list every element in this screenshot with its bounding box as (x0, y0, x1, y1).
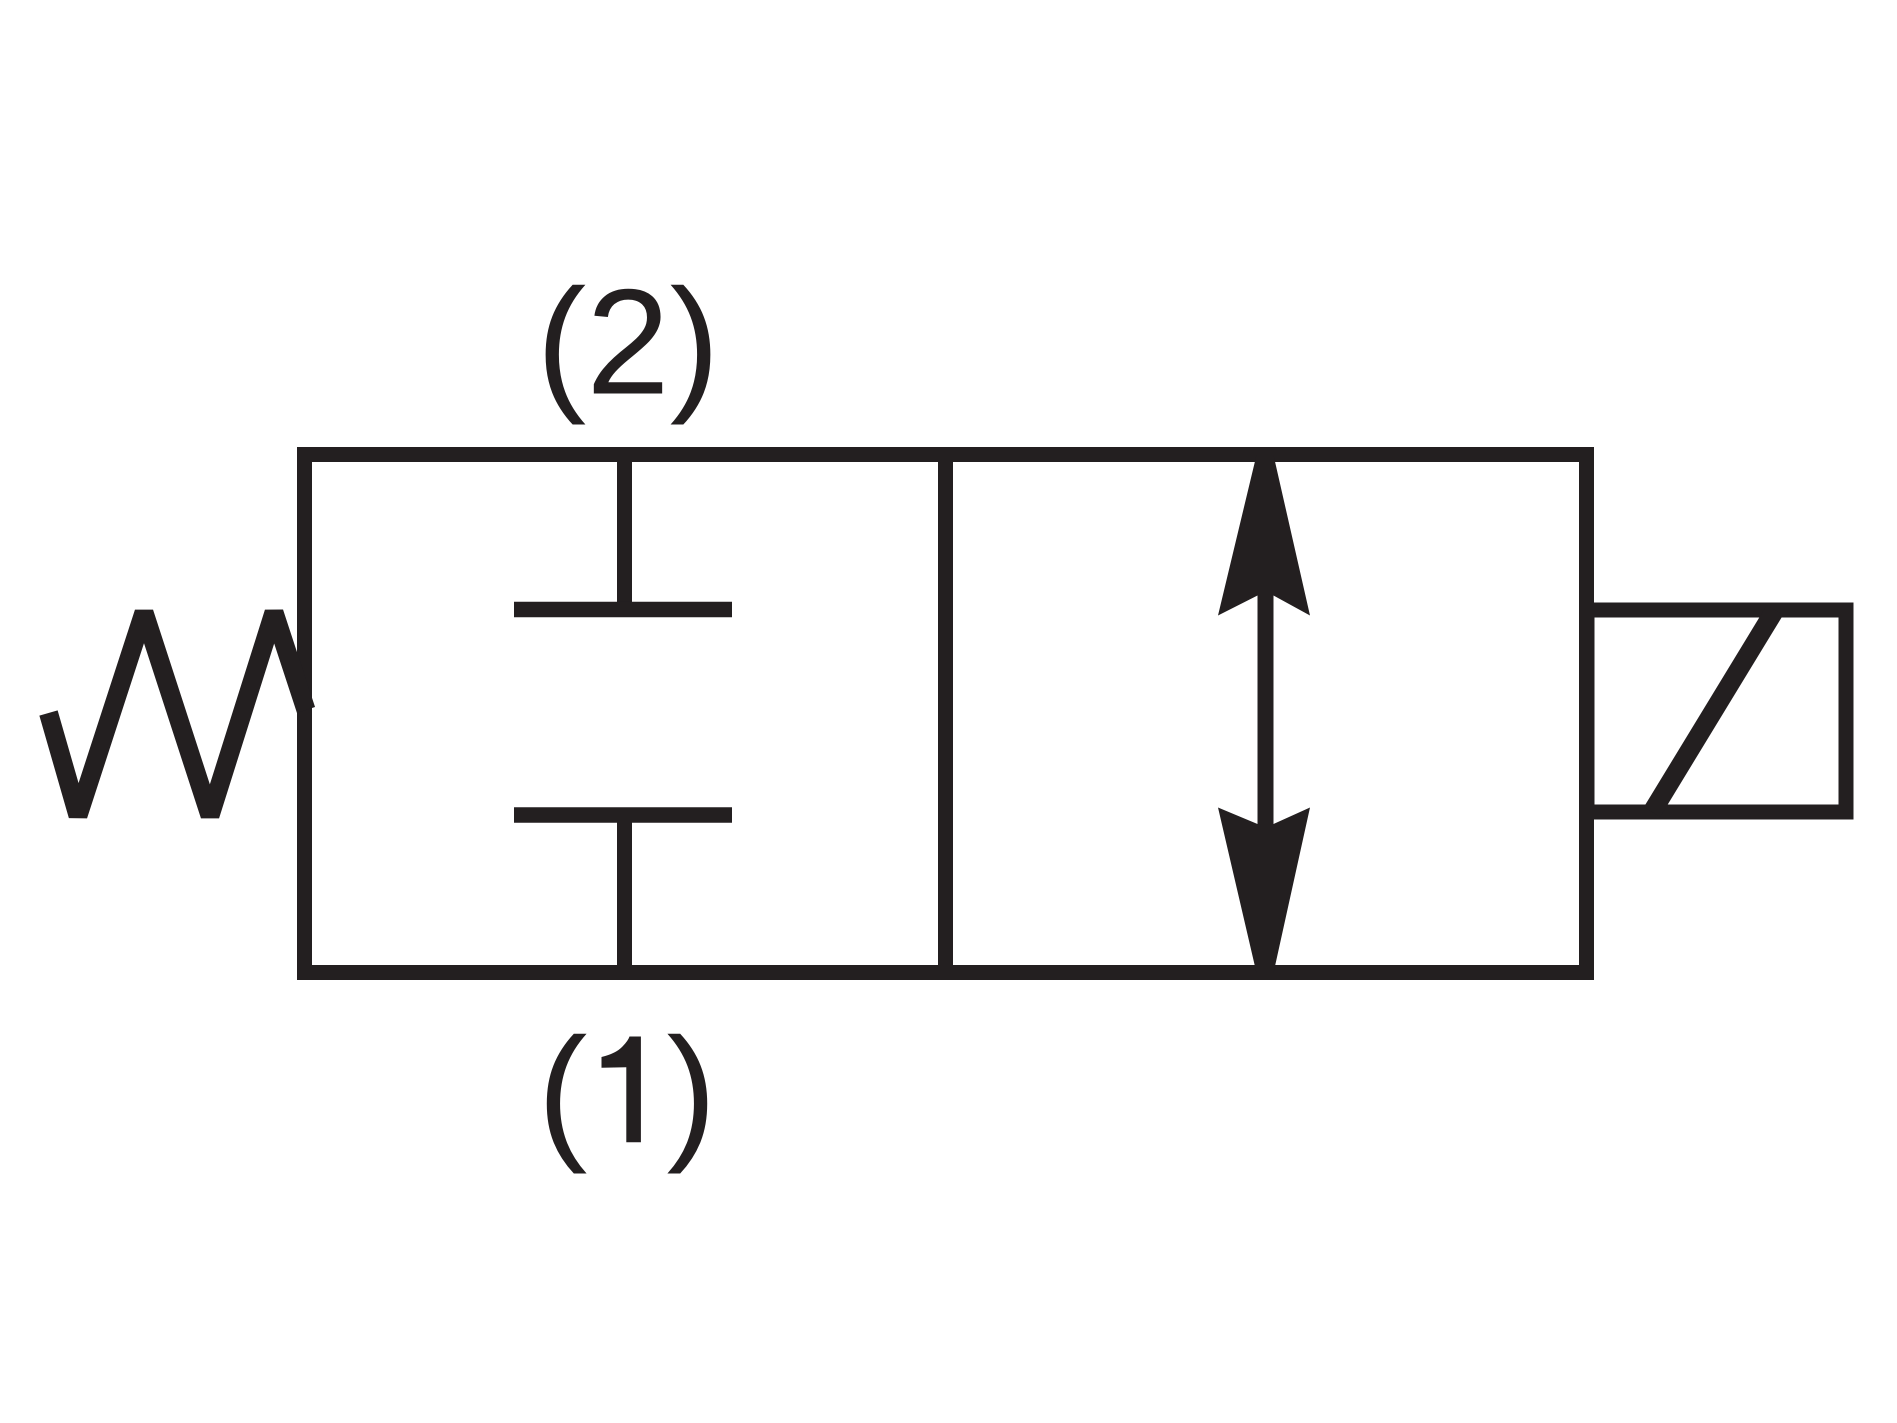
svg-text:(: ( (538, 1007, 588, 1175)
svg-text:): ) (667, 1007, 717, 1175)
svg-text:(2): (2) (536, 258, 719, 426)
